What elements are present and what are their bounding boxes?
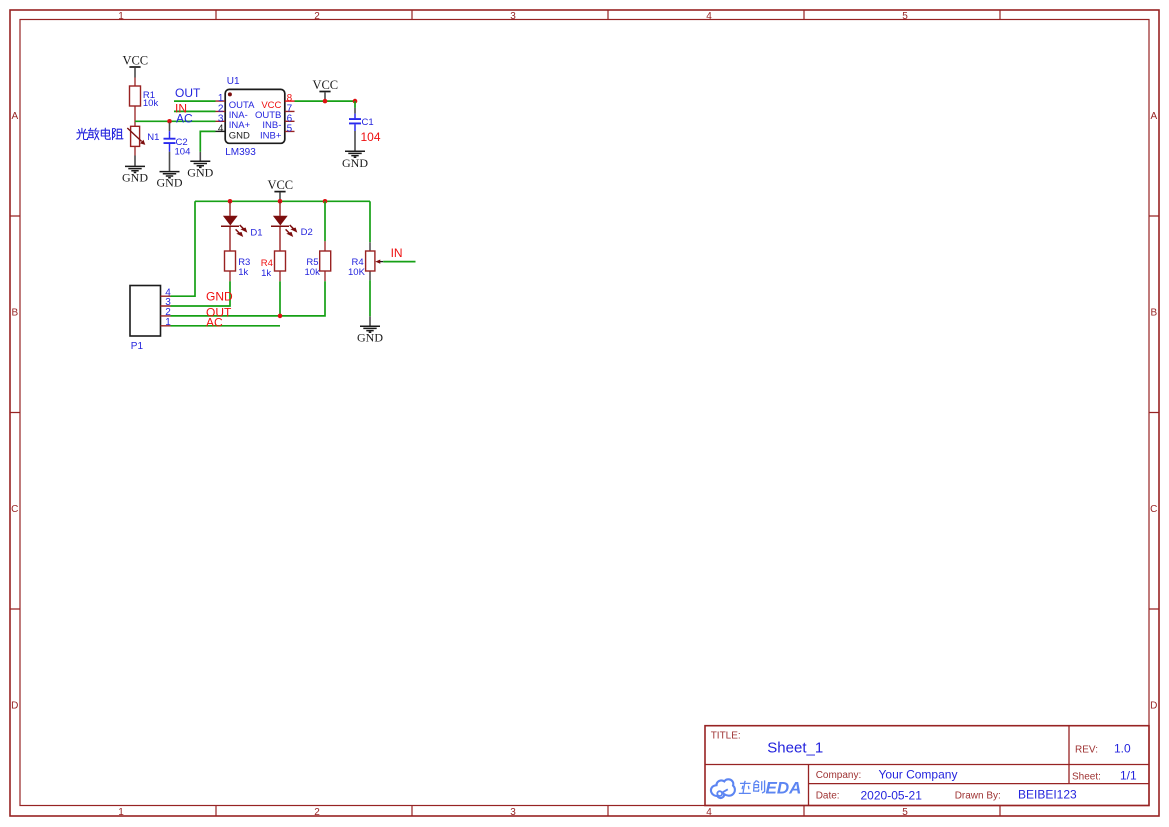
svg-text:1k: 1k (261, 268, 271, 279)
svg-text:1: 1 (118, 11, 124, 22)
svg-text:1.0: 1.0 (1114, 741, 1131, 755)
junction bus at D2/VCC (278, 199, 283, 204)
svg-text:1k: 1k (238, 267, 248, 278)
potentiometer R4 (366, 242, 384, 280)
svg-text:OUT: OUT (175, 86, 201, 100)
svg-text:GND: GND (357, 330, 383, 344)
capacitor C1 (349, 101, 361, 151)
svg-text:A: A (11, 111, 18, 122)
logo LCEDA (711, 779, 735, 798)
power flag VCC at U1 pin8 (312, 78, 338, 101)
wire U1 pin4 to ground (200, 131, 215, 152)
resistor R1 (130, 78, 141, 127)
wire VCC bus horizontal (195, 200, 370, 202)
wire net AC at P1 pin1 (171, 325, 281, 327)
ground GND at U1 pin4 (187, 152, 213, 180)
svg-text:D1: D1 (250, 227, 262, 238)
svg-text:C1: C1 (362, 117, 374, 128)
svg-text:D2: D2 (301, 227, 313, 238)
svg-text:3: 3 (510, 11, 516, 22)
svg-text:B: B (11, 308, 18, 319)
wire net OUT at U1 pin1 (174, 100, 216, 102)
svg-text:4: 4 (218, 124, 224, 135)
svg-text:Drawn By:: Drawn By: (955, 791, 1001, 802)
svg-text:GND: GND (229, 130, 250, 141)
title block (705, 726, 1149, 806)
LED D1 (221, 201, 247, 251)
svg-text:P1: P1 (131, 341, 144, 352)
svg-text:VCC: VCC (312, 78, 338, 92)
svg-text:LM393: LM393 (225, 147, 256, 158)
svg-text:N1: N1 (147, 132, 159, 143)
resistor R4 (275, 251, 286, 281)
svg-text:1: 1 (165, 317, 171, 328)
svg-text:GND: GND (122, 171, 148, 185)
svg-text:BEIBEI123: BEIBEI123 (1018, 788, 1077, 802)
svg-text:5: 5 (902, 807, 908, 818)
ground GND below C2 (157, 172, 183, 190)
svg-text:A: A (1150, 111, 1157, 122)
svg-text:2020-05-21: 2020-05-21 (861, 788, 923, 802)
junction bus at R5 (323, 199, 328, 204)
wire U1 pin8 to VCC and C1 (295, 100, 356, 102)
capacitor C2 (164, 123, 176, 172)
svg-text:VCC: VCC (122, 54, 148, 68)
U1 pin 8 (285, 100, 295, 102)
svg-text:10k: 10k (305, 267, 321, 278)
wire net IN at potentiometer (383, 261, 415, 263)
power flag VCC at R1 (122, 54, 148, 78)
svg-text:Sheet:: Sheet: (1072, 771, 1101, 782)
junction OUT at R4 (278, 314, 283, 319)
svg-text:4: 4 (706, 11, 712, 22)
svg-text:10k: 10k (143, 98, 159, 109)
photoresistor N1 (127, 126, 145, 166)
connector P1 (130, 286, 171, 337)
svg-text:2: 2 (314, 11, 320, 22)
svg-text:U1: U1 (227, 76, 240, 87)
svg-text:Your Company: Your Company (879, 768, 958, 782)
svg-text:C: C (1150, 504, 1157, 515)
svg-text:C: C (11, 504, 18, 515)
svg-text:1/1: 1/1 (1120, 768, 1137, 782)
U1 pins 1-3 left (216, 101, 226, 121)
svg-text:IN: IN (175, 101, 187, 115)
ground GND below potentiometer (357, 316, 383, 344)
svg-text:10K: 10K (348, 267, 366, 278)
svg-text:GND: GND (157, 176, 183, 190)
ground GND below C1 (342, 151, 368, 170)
U1 pin names (229, 100, 282, 141)
svg-text:104: 104 (175, 147, 191, 158)
svg-text:Company:: Company: (816, 770, 862, 781)
svg-text:3: 3 (510, 807, 516, 818)
resistor R5 (320, 201, 331, 281)
svg-text:D: D (11, 701, 18, 712)
svg-text:2: 2 (314, 807, 320, 818)
P1 pin numbers (165, 287, 171, 328)
svg-text:Date:: Date: (816, 791, 840, 802)
U1 pins 7-5 right (285, 111, 295, 131)
U1 pin numbers (218, 93, 293, 134)
svg-text:INB+: INB+ (260, 130, 282, 141)
svg-text:GND: GND (187, 165, 213, 179)
svg-text:REV:: REV: (1075, 745, 1098, 756)
wire bus left drop to P1 pin4 (171, 201, 196, 296)
op-amp U1 LM393 body (225, 89, 285, 143)
svg-text:IN: IN (391, 246, 403, 260)
resistor R3 (225, 251, 236, 281)
N1 name 光敏电阻 (77, 128, 123, 139)
svg-text:EDA: EDA (766, 779, 802, 798)
svg-text:AC: AC (206, 315, 223, 329)
LED D2 (271, 201, 297, 251)
svg-text:5: 5 (902, 11, 908, 22)
svg-text:Sheet_1: Sheet_1 (767, 739, 823, 756)
junction bus at D1 (228, 199, 233, 204)
svg-text:4: 4 (706, 807, 712, 818)
svg-text:D: D (1150, 701, 1157, 712)
power flag VCC mid section (267, 178, 293, 201)
svg-text:5: 5 (287, 124, 293, 135)
svg-text:GND: GND (206, 290, 233, 304)
junction at VCC stem (323, 99, 328, 104)
wire pot to ground (369, 280, 371, 316)
wire net IN at U1 pin2 (174, 110, 216, 112)
svg-text:TITLE:: TITLE: (711, 731, 741, 742)
svg-text:104: 104 (361, 130, 381, 144)
junction on AC at C2 (167, 119, 172, 124)
svg-text:B: B (1150, 308, 1157, 319)
svg-text:VCC: VCC (267, 178, 293, 192)
ground GND below R1/N1 (122, 166, 148, 184)
wire net OUT P1 pin2 to R5 (171, 281, 326, 316)
svg-text:1: 1 (118, 807, 124, 818)
wire R4 to OUT net (279, 281, 281, 316)
svg-text:GND: GND (342, 156, 368, 170)
U1 pin 4 (216, 130, 226, 132)
wire bus right drop to potentiometer (369, 201, 371, 242)
junction at C1 (353, 99, 358, 104)
wire net AC from R1/N1 to U1 pin3 (135, 120, 216, 122)
wire P1 pin3 to R3 (171, 281, 231, 306)
